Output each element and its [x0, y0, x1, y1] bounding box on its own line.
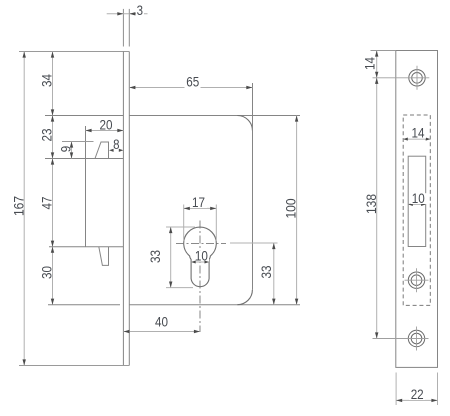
dim 33 left line	[169, 227, 172, 288]
dim 3 text	[136, 2, 144, 18]
svg-text:33: 33	[147, 250, 163, 263]
cylinder horizontal center line	[176, 242, 226, 244]
dim 22 line	[396, 399, 437, 402]
dim 17 text	[190, 194, 207, 210]
svg-text:33: 33	[258, 265, 274, 278]
side view: case top line	[45, 115, 123, 117]
svg-text:40: 40	[155, 313, 168, 329]
front view: body right edge	[252, 83, 254, 290]
side view: faceplate left edge	[122, 52, 124, 366]
dim 20 line	[86, 129, 124, 132]
dim 167 line	[23, 52, 26, 366]
svg-text:100: 100	[283, 198, 299, 218]
side view: faceplate right edge	[128, 52, 130, 366]
dim 14 dashed text	[410, 125, 426, 141]
svg-text:10: 10	[412, 190, 425, 206]
dim 33 right line	[272, 243, 275, 305]
svg-text:167: 167	[10, 196, 26, 216]
dim 10 slot text	[411, 190, 427, 206]
svg-text:17: 17	[192, 194, 205, 210]
dim 9 line	[70, 142, 73, 159]
side view: top extension line at plate top	[19, 51, 129, 53]
dim 14 dashed line	[403, 138, 430, 141]
side view: case middle line	[49, 246, 123, 248]
svg-text:8: 8	[113, 136, 120, 152]
dim 3 extension line right	[128, 9, 130, 47]
bottom screw hole extension line	[373, 338, 429, 340]
dim 3 extension line left	[122, 9, 124, 47]
dim 65 text	[185, 74, 201, 90]
svg-text:47: 47	[39, 196, 55, 209]
dim 40 text	[153, 313, 170, 329]
svg-text:3: 3	[137, 2, 144, 18]
strike plate top extension line	[371, 50, 396, 52]
front view: body top right corner arc	[237, 116, 252, 131]
svg-text:30: 30	[39, 266, 55, 279]
dim 22 text	[409, 386, 425, 402]
front view: body top edge	[129, 115, 300, 117]
svg-text:20: 20	[100, 116, 113, 132]
dim 138 line	[375, 78, 378, 339]
side view: latch bottom line	[45, 158, 123, 160]
dim 40 line	[123, 330, 200, 333]
dim 9 extension line	[62, 141, 94, 143]
dim 22 extension line left	[395, 373, 397, 406]
cylinder hole euro profile	[184, 227, 217, 287]
dim 33 right extension line	[230, 242, 278, 244]
dim 10 slot line	[408, 203, 426, 206]
svg-text:9: 9	[58, 146, 74, 153]
dashed rectangle lock body behind plate	[403, 115, 430, 305]
slot opening in plate	[408, 156, 426, 246]
svg-text:65: 65	[186, 74, 199, 90]
dim 65 line	[129, 86, 252, 89]
dim 14 top line	[375, 51, 378, 78]
side view: case bottom line	[48, 304, 120, 306]
svg-text:138: 138	[363, 194, 379, 214]
dim 100 line	[295, 116, 298, 305]
dim 17 extension line right	[215, 205, 217, 242]
dim 17 extension line left	[183, 205, 185, 242]
dim 22 extension line right	[437, 373, 439, 406]
front view: body bottom edge	[129, 304, 300, 306]
chain dimension line 34/23/47/30	[51, 52, 54, 305]
middle screw hole	[405, 268, 429, 292]
side view: latch bolt trapezoid	[95, 142, 109, 159]
dim 33 left extension top	[166, 226, 195, 228]
front view: body bottom right corner arc	[237, 290, 252, 305]
dim 3 line with arrows	[107, 12, 148, 15]
cylinder vertical center line	[199, 221, 201, 333]
dim 10 cylinder line and arrows	[191, 260, 209, 263]
dim 8 arrows	[109, 149, 123, 152]
side view: case front edge	[85, 126, 87, 247]
dim 17 line	[184, 207, 217, 210]
side view: lower hook pin	[99, 247, 109, 266]
svg-text:23: 23	[39, 128, 55, 141]
dim 10 cylinder text	[194, 248, 210, 264]
bottom screw hole	[408, 327, 424, 351]
side view: faceplate bottom extension line	[19, 365, 129, 367]
svg-text:34: 34	[39, 74, 55, 87]
top screw hole	[409, 66, 425, 90]
top screw hole extension line	[373, 77, 430, 79]
svg-text:14: 14	[412, 125, 425, 141]
svg-text:22: 22	[411, 386, 424, 402]
dim 33 left extension bottom	[166, 287, 193, 289]
strike plate outline	[396, 51, 438, 368]
dim 20 text	[98, 116, 114, 132]
svg-text:14: 14	[361, 57, 377, 70]
